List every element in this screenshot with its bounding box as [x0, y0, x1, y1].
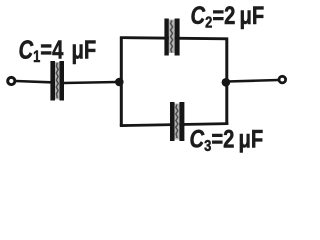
- capacitor C3: [170, 102, 184, 141]
- svg-text:C3=2 μF: C3=2 μF: [190, 124, 264, 155]
- svg-text:C2=2 μF: C2=2 μF: [191, 1, 265, 32]
- right terminal: [279, 76, 286, 83]
- svg-text:C1=4 μF: C1=4 μF: [19, 35, 97, 66]
- left terminal: [8, 77, 15, 84]
- wire: [227, 80, 279, 82]
- wire: [120, 38, 228, 39]
- label C1 value: [19, 35, 97, 66]
- wire: [120, 124, 229, 126]
- wire: [64, 82, 117, 83]
- node A: [115, 78, 124, 87]
- node B: [222, 78, 231, 87]
- label C3 value: [190, 124, 264, 155]
- label C2 value: [191, 1, 265, 32]
- wire: [225, 38, 228, 125]
- wire: [120, 39, 123, 126]
- wire: [16, 81, 51, 82]
- capacitor C1: [50, 61, 64, 101]
- capacitor C2: [164, 19, 179, 56]
